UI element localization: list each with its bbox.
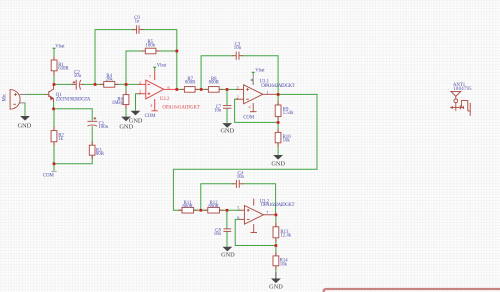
svg-text:800R: 800R [182,204,193,209]
svg-text:10n: 10n [237,175,245,180]
svg-text:GND: GND [18,123,32,130]
svg-text:10n: 10n [234,46,242,51]
svg-text:20k: 20k [106,77,114,82]
svg-text:Mic: Mic [2,94,7,102]
svg-text:2: 2 [237,95,239,100]
svg-text:50u: 50u [74,74,82,79]
svg-text:ZXTN19020DGTA: ZXTN19020DGTA [56,98,91,103]
svg-text:1.54k: 1.54k [283,111,294,116]
svg-text:800R: 800R [185,81,196,86]
svg-text:10k: 10k [283,138,291,143]
svg-text:3: 3 [237,85,239,90]
svg-text:1004795: 1004795 [453,87,472,92]
svg-text:U2.2: U2.2 [160,97,170,102]
svg-text:COM: COM [43,173,55,178]
svg-text:7: 7 [149,74,151,79]
svg-text:OPA1642AIDGKT: OPA1642AIDGKT [261,203,295,208]
svg-text:10n: 10n [214,232,222,237]
svg-text:GND: GND [220,128,234,135]
svg-text:1Meg: 1Meg [112,101,124,106]
svg-text:OPA1642AIDGKT: OPA1642AIDGKT [261,84,295,89]
svg-text:6: 6 [237,215,239,220]
svg-text:1k: 1k [58,137,63,142]
svg-text:100k: 100k [146,44,156,49]
svg-text:Vbat: Vbat [55,44,65,49]
svg-text:630R: 630R [58,67,69,72]
svg-text:COM: COM [243,116,255,121]
svg-text:800R: 800R [209,81,220,86]
svg-text:7: 7 [266,210,268,215]
svg-text:12.4k: 12.4k [280,234,291,239]
svg-text:5: 5 [237,206,239,211]
svg-text:GND: GND [271,161,285,168]
svg-text:10k: 10k [280,262,288,267]
svg-text:800R: 800R [208,204,219,209]
svg-text:GND: GND [119,123,133,130]
svg-text:GND: GND [221,252,235,259]
svg-text:100u: 100u [99,125,109,130]
svg-text:2: 2 [139,80,141,85]
svg-text:6: 6 [168,85,170,90]
svg-text:Vbat: Vbat [157,63,167,68]
svg-text:GND: GND [129,117,143,124]
svg-text:GND: GND [269,283,283,290]
svg-text:3: 3 [139,89,141,94]
svg-text:10n: 10n [214,108,222,113]
svg-text:1n: 1n [135,20,140,25]
svg-text:80R: 80R [96,152,105,157]
svg-text:Vbat: Vbat [255,68,265,73]
svg-text:1: 1 [266,90,268,95]
svg-text:COM: COM [145,114,157,119]
svg-text:OPA1641AIDGKT: OPA1641AIDGKT [162,106,200,111]
